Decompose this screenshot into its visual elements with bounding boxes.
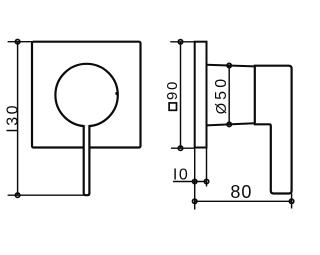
side view: cylinder body bottom edge (207, 123, 255, 125)
dim 130: bottom dot (15, 193, 19, 197)
dim dia50: bottom dot (227, 122, 231, 126)
dim 130: top extension line (8, 41, 33, 43)
dim 10: dimension line (173, 181, 207, 183)
dim 10: left dot (193, 179, 197, 183)
dim 80: left dot (193, 199, 197, 203)
dim square90: dimension line (180, 42, 182, 148)
front view: lever handle bar (84, 125, 90, 195)
label square90: square symbol (rotated) (169, 103, 176, 110)
dim 130: dimension line (17, 42, 19, 196)
side view: wall plate (195, 42, 207, 148)
dim square90: bottom extension line (171, 147, 195, 149)
svg-text:I0: I0 (173, 167, 189, 184)
dim 80: right dot (289, 199, 293, 203)
dim 80: right extension line (lever edge extended) (291, 194, 293, 209)
svg-text:Ø50: Ø50 (213, 76, 230, 115)
dim 10: left extension line (plate back edge extended) (194, 148, 196, 210)
dim 130: bottom extension line (8, 194, 85, 196)
svg-text:90: 90 (164, 80, 181, 100)
front view: square wall plate (32, 42, 141, 148)
dim square90: bottom dot (178, 146, 182, 150)
svg-text:I30: I30 (4, 103, 21, 133)
dim 10: right dot (204, 179, 208, 183)
dim 10: right extension line (plate front edge extended) (206, 148, 208, 187)
dim dia50: top dot (227, 63, 231, 67)
dim square90: top extension line (170, 41, 194, 43)
side view: cylinder body top edge (207, 65, 255, 67)
dim 80: dimension line (195, 200, 292, 202)
dim 130: top dot (15, 40, 19, 44)
front view: handle rosette circle (55, 64, 117, 126)
svg-text:80: 80 (230, 182, 252, 202)
side view: handle cap and lever outline (255, 66, 292, 194)
dim dia50: dimension line (228, 66, 230, 125)
dim square90: top dot (178, 40, 182, 44)
front view: indicator dot on circle (115, 92, 118, 95)
